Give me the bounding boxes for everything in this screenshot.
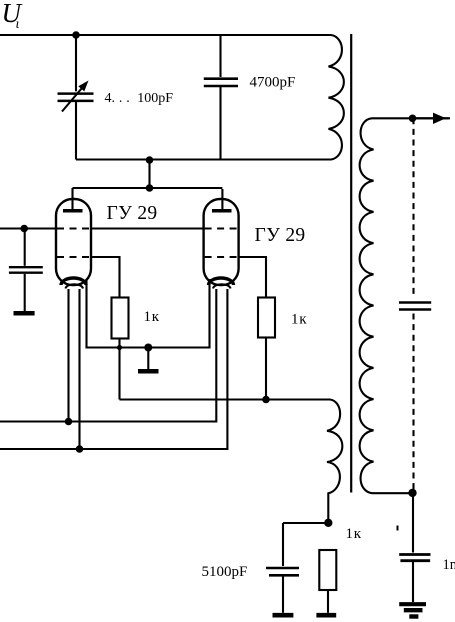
svg-text:ГУ 29: ГУ 29 — [255, 225, 306, 246]
svg-text:5100pF: 5100pF — [202, 564, 248, 580]
svg-text:4700pF: 4700pF — [250, 75, 296, 91]
svg-text:1к: 1к — [144, 309, 160, 325]
svg-text:1к: 1к — [346, 526, 362, 542]
svg-text:ГУ 29: ГУ 29 — [107, 203, 158, 224]
svg-text:ι: ι — [16, 17, 20, 32]
svg-text:1n: 1n — [443, 557, 455, 573]
svg-text:1к: 1к — [291, 312, 307, 328]
svg-text:4...100pF: 4...100pF — [105, 91, 174, 106]
